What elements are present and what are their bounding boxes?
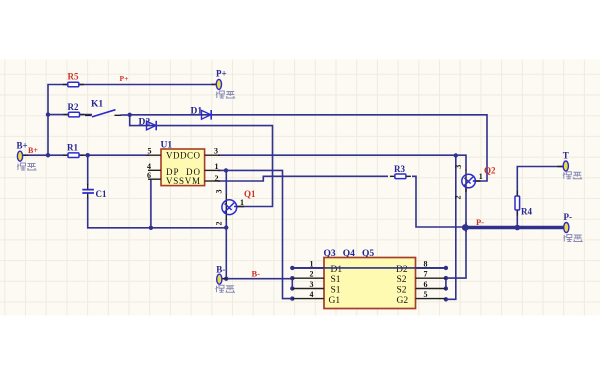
svg-text:2: 2 [454, 196, 463, 200]
wire U1 pin2 jog to R3 [218, 176, 388, 181]
wire R4 bottom [516, 210, 518, 228]
svg-text:5: 5 [424, 290, 428, 299]
wire G2 riser to U1 pin3 net [446, 156, 456, 300]
U1 pin 3 [205, 146, 220, 155]
wire U1 pin3 to Q2 collector [218, 155, 466, 170]
svg-text:C1: C1 [96, 189, 107, 199]
junction R4 on P- rail [515, 225, 521, 231]
pad P+ solder pad label [216, 91, 236, 98]
svg-text:B-: B- [216, 265, 225, 275]
junction pin6 VSS rail [149, 226, 153, 230]
wire drain crossing overlay [292, 267, 446, 269]
MOSFET pin 3 [292, 280, 324, 289]
svg-text:R3: R3 [394, 164, 405, 174]
svg-text:K1: K1 [91, 100, 103, 110]
pad B- pin stub [222, 278, 227, 280]
pad T pin stub [558, 166, 563, 168]
MOSFET pin 5 [416, 290, 446, 299]
junction C1 tap [86, 153, 90, 157]
pad P- [564, 223, 569, 233]
svg-text:4: 4 [147, 162, 151, 171]
svg-text:D1: D1 [191, 107, 203, 117]
svg-text:VSSVM: VSSVM [166, 176, 200, 186]
wire S2 pins tie [445, 278, 447, 288]
svg-text:S2: S2 [397, 286, 407, 296]
svg-text:2: 2 [310, 270, 314, 279]
pad P+ [216, 79, 221, 89]
junction U1 pin3 / G2 node [454, 153, 458, 157]
svg-text:D1: D1 [331, 265, 343, 275]
svg-text:B+: B+ [28, 146, 38, 155]
svg-text:G2: G2 [397, 296, 409, 306]
svg-text:4: 4 [310, 290, 314, 299]
junction B- node [224, 277, 228, 281]
svg-text:R2: R2 [68, 102, 79, 112]
wire S2 pins to P- junction [446, 222, 466, 278]
Q2 pin 3 [454, 165, 463, 169]
MOSFET pin 4 [292, 290, 324, 299]
junction R2 tap [46, 112, 50, 116]
svg-text:Q2: Q2 [484, 166, 496, 176]
junction Q1 emitter VSS rail [224, 225, 228, 229]
capacitor C1 [87, 184, 89, 199]
svg-text:D2: D2 [396, 265, 408, 275]
junction Q1 collector on DO wire [224, 168, 228, 172]
Q1 pin 1 [240, 198, 244, 207]
svg-text:S1: S1 [331, 275, 341, 285]
wire Q1 collector riser [225, 170, 227, 195]
diode D1 [202, 110, 211, 119]
svg-text:5: 5 [148, 146, 152, 155]
pad B+ [17, 151, 22, 161]
svg-text:1: 1 [215, 162, 219, 171]
pad P+ pin stub [212, 83, 217, 85]
MOSFET pin 8 [416, 259, 446, 268]
wire P- thick rail [465, 226, 563, 229]
svg-text:R4: R4 [521, 207, 532, 217]
wire R3 to P- junction [412, 176, 465, 227]
op-amp U1 protection IC [161, 141, 205, 186]
svg-text:Q1: Q1 [244, 189, 256, 199]
svg-text:1: 1 [310, 259, 314, 268]
wire C1 bottom to VSS rail [88, 197, 227, 228]
junction K1/D1/D2 node [128, 113, 132, 117]
MOSFET pin 7 [416, 270, 446, 279]
svg-text:D2: D2 [139, 118, 151, 128]
svg-text:3: 3 [454, 165, 463, 169]
svg-text:1: 1 [240, 198, 244, 207]
svg-text:3: 3 [215, 190, 224, 194]
junction Q2 emitter P- node [462, 224, 469, 231]
junction pin5 G2 [444, 297, 448, 301]
junction pin2 S1 [290, 276, 294, 280]
wire R2 row to switch [48, 114, 92, 116]
U1 pin 4 [147, 162, 161, 171]
pad B- [217, 274, 222, 284]
wire P+ net: vertical trunk and R5 row [48, 85, 216, 156]
svg-text:P+: P+ [216, 69, 227, 79]
wire switch to D1 junction [121, 114, 130, 116]
svg-text:P-: P- [476, 217, 484, 227]
svg-text:VDDCO: VDDCO [166, 150, 201, 160]
svg-text:S1: S1 [331, 286, 341, 296]
svg-text:6: 6 [147, 171, 151, 180]
wire B+ net through R1 to U1 pin5 [22, 154, 149, 156]
wire B- net pad to S1 pins [222, 279, 293, 289]
svg-text:1: 1 [479, 172, 483, 181]
svg-text:S2: S2 [397, 275, 407, 285]
wire D2 branch to Q1 base [130, 115, 273, 207]
MOSFET pin 6 [416, 280, 446, 289]
wire drain crossing D1-D2 [292, 267, 446, 269]
svg-text:R1: R1 [67, 143, 78, 153]
diode D2 [147, 121, 156, 130]
svg-text:2: 2 [215, 222, 224, 226]
svg-text:B-: B- [252, 269, 261, 279]
Q1 pin 3 [215, 190, 224, 194]
MOSFET pin 2 [292, 270, 324, 279]
dual MOSFET block Q3 Q4 Q5 [324, 249, 416, 309]
wire Q1 emitter down to B- rail [225, 219, 227, 279]
junction pin6 S2 [444, 286, 448, 290]
Q2 pin 2 [454, 196, 463, 200]
svg-text:2: 2 [215, 174, 219, 183]
resistor R3 [390, 175, 411, 177]
wire U1 pin6 down to VSS rail [150, 179, 152, 228]
Q1 pin 2 [215, 222, 224, 226]
resistor R1 [63, 154, 84, 156]
wire D1 net to Q2 base [130, 115, 487, 181]
wire T pad to R4 [517, 167, 563, 197]
svg-text:R5: R5 [68, 72, 79, 82]
junction pin3 S1 [290, 286, 294, 290]
pad T solder pad label [563, 172, 583, 179]
MOSFET pin 1 [292, 259, 324, 268]
svg-text:P+: P+ [120, 74, 129, 83]
pad T [563, 161, 568, 171]
pad B+ pin stub [23, 154, 29, 156]
wire C1 branch top [87, 155, 89, 185]
junction pin4 G1 [290, 296, 294, 300]
svg-text:B+: B+ [17, 141, 28, 151]
U1 pin 2 [205, 174, 220, 183]
svg-text:T: T [563, 151, 569, 161]
junction B+ tap [46, 153, 50, 157]
U1 pin 1 [205, 162, 220, 171]
resistor R5 [63, 84, 84, 86]
U1 pin 5 [147, 146, 162, 155]
svg-text:6: 6 [424, 280, 428, 289]
pad P- solder pad label [563, 235, 583, 242]
U1 pin 6 [147, 171, 161, 180]
svg-text:7: 7 [424, 270, 428, 279]
transistor Q1 [222, 195, 244, 221]
junction pin1 D1 [290, 266, 294, 270]
switch K1 [85, 114, 121, 116]
svg-text:P-: P- [564, 212, 573, 222]
junction pin7 S2 [444, 276, 448, 280]
svg-text:3: 3 [310, 280, 314, 289]
Q2 pin 1 [479, 172, 483, 181]
pad B- solder pad label [216, 285, 236, 292]
resistor R2 [64, 114, 85, 116]
svg-text:G1: G1 [329, 296, 341, 306]
transistor Q2 [462, 170, 481, 193]
junction pin8 D2 [444, 266, 448, 270]
wire U1 pin1 DO to G1 column [218, 170, 292, 298]
svg-text:3: 3 [214, 146, 218, 155]
wire Q2 emitter [465, 188, 467, 233]
svg-text:8: 8 [424, 259, 428, 268]
pad B+ solder pad label [17, 163, 37, 170]
resistor R4 [516, 191, 518, 216]
